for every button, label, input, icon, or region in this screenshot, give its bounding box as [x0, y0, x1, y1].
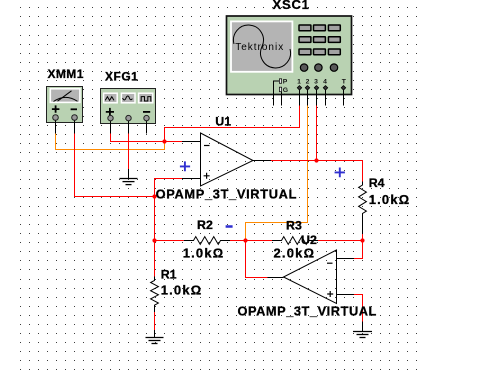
wire: node A up to U1 + input: [155, 179, 201, 197]
svg-text:OPAMP_3T_VIRTUAL: OPAMP_3T_VIRTUAL: [238, 304, 377, 319]
op-amp U2 (mirrored): [284, 250, 337, 304]
XFG1 square button: [139, 93, 153, 103]
svg-text:1.0kΩ: 1.0kΩ: [161, 283, 203, 298]
oscilloscope XSC1: [227, 16, 352, 106]
svg-text:P: P: [283, 78, 288, 85]
blue minus annotation near R2: [226, 225, 233, 228]
ground G1 under XFG1: [120, 179, 138, 185]
wire: R2 right to node B: [230, 240, 246, 242]
svg-text:R4: R4: [369, 176, 385, 190]
svg-text:OPAMP_3T_VIRTUAL: OPAMP_3T_VIRTUAL: [156, 187, 297, 202]
XMM1 pin stubs: [56, 120, 75, 134]
XFG1 minus terminal label: [143, 111, 150, 113]
junction node R2-R1 dot: [152, 238, 156, 242]
blue plus annotation near R4: [335, 168, 345, 178]
XMM1 pin +: [53, 115, 59, 121]
XMM1 needle: [58, 91, 72, 101]
ground G2 under R1: [146, 338, 164, 344]
svg-text:U1: U1: [215, 115, 231, 129]
svg-text:XMM1: XMM1: [48, 67, 84, 81]
svg-text:XFG1: XFG1: [105, 70, 138, 84]
wire: node B to R3 left: [246, 240, 273, 242]
wire: node A down through R2 row: [154, 197, 156, 277]
svg-text:1.0kΩ: 1.0kΩ: [369, 192, 411, 207]
XMM1 pin -: [72, 115, 78, 121]
svg-text:1.0kΩ: 1.0kΩ: [183, 245, 225, 260]
resistor R1: [151, 277, 159, 313]
blue plus annotation near U1: [180, 161, 190, 171]
wire: U1 output to R4 top: [253, 161, 363, 182]
XMM1 gauge arc: [54, 97, 78, 101]
wire: scope ch1 to input node: [165, 105, 300, 142]
wire: R2 left segment: [155, 240, 184, 242]
XFG1 pin COM: [126, 115, 131, 120]
ground pin stem: [128, 169, 130, 179]
wire: scope ch2 (orange) to R2-R3 node: [246, 105, 308, 241]
svg-text:3: 3: [314, 78, 318, 85]
XMM1 plus terminal label: [52, 105, 60, 112]
XSC1 pin G stub: [281, 92, 283, 106]
svg-text:R2: R2: [197, 218, 213, 232]
svg-text:G: G: [283, 87, 288, 94]
junction U1 output dot: [314, 158, 318, 162]
wire: U2 + input to ground: [337, 295, 363, 332]
wire: R1 bottom to ground: [154, 312, 156, 338]
XFG1 pin stubs: [111, 121, 147, 134]
function generator XFG1: [101, 89, 156, 134]
XFG1 plus terminal label: [106, 108, 114, 116]
XSC1 button grid: [299, 25, 340, 55]
svg-text:R1: R1: [161, 267, 177, 281]
resistor R3: [272, 237, 318, 245]
wire: R3 right to node C: [318, 240, 363, 242]
wire: U1 inverting input: [165, 141, 201, 143]
grid dots: [20, 7, 417, 370]
wire: R4 bottom to node C: [362, 234, 364, 241]
svg-text:4: 4: [323, 78, 327, 85]
op-amp U1: [201, 133, 254, 186]
multimeter XMM1: [47, 87, 83, 134]
wire: XMM1 - down and right to node A: [75, 134, 155, 197]
XSC1 pin P stub: [274, 81, 280, 106]
svg-text:2: 2: [306, 78, 310, 85]
wire: scope ch3 to U1 output: [316, 105, 318, 161]
XFG1 triangle button: [121, 93, 135, 103]
XMM1 screen: [50, 89, 80, 103]
XSC1 knobs: [300, 64, 307, 71]
resistor R2: [184, 237, 230, 245]
resistor R4: [359, 182, 367, 235]
junction node C dot: [360, 238, 364, 242]
svg-text:R3: R3: [286, 218, 302, 232]
wire: XFG1 + to input node: [111, 134, 165, 142]
XSC1 channel pin stubs: [300, 88, 344, 106]
svg-text:Tektronix: Tektronix: [235, 42, 284, 53]
XFG1 pin +: [108, 115, 113, 120]
wire: node B down to U2 output: [246, 241, 284, 278]
svg-text:2.0kΩ: 2.0kΩ: [274, 246, 316, 261]
junction node input dot: [162, 139, 166, 143]
wire: XMM1 + (orange) to input node: [56, 134, 165, 150]
junction node A dot: [152, 194, 156, 198]
svg-text:1: 1: [297, 78, 301, 85]
XFG1 pin -: [144, 115, 149, 120]
XSC1 screen sine wave: [233, 25, 290, 68]
XMM1 minus terminal label: [71, 108, 77, 110]
wire: XFG1 com to ground: [128, 134, 130, 170]
wire: U2 inverting input to node C: [337, 241, 363, 259]
XSC1 pin diamonds: [297, 86, 345, 90]
junction node B dot: [243, 238, 247, 242]
svg-text:XSC1: XSC1: [273, 0, 310, 12]
ground G3 right of U2: [353, 332, 372, 338]
XSC1 screen: [231, 21, 292, 71]
XFG1 sine button: [104, 93, 118, 103]
